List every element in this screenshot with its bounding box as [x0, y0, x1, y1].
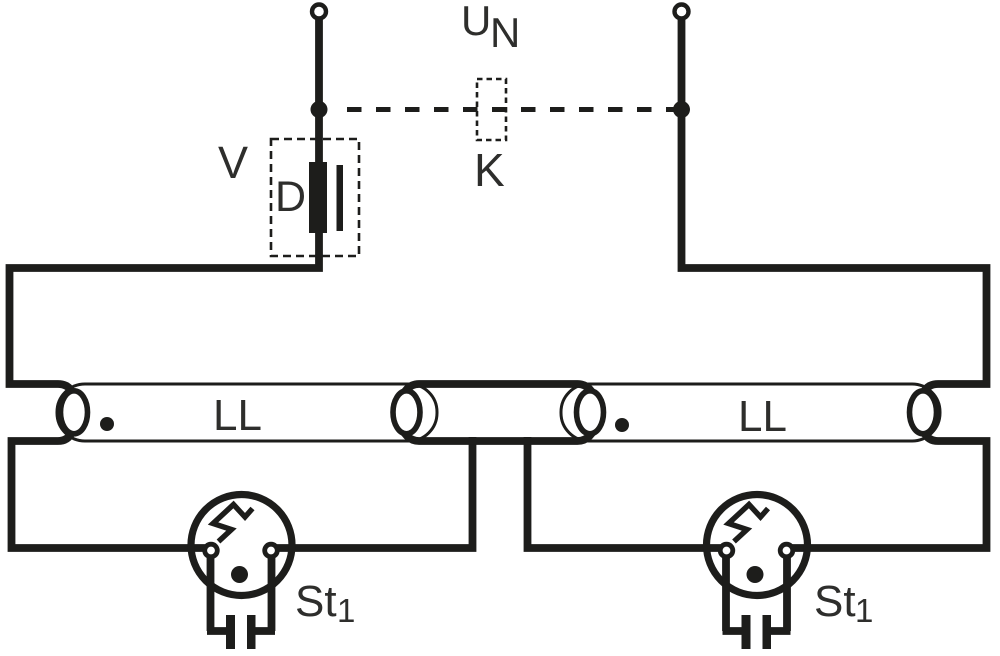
gas dot lamp2: [615, 418, 629, 432]
wire: lamp2 right electrode bottom to starter St1 (right) right pin: [787, 432, 987, 548]
svg-text:1: 1: [337, 592, 355, 629]
terminal left: [312, 5, 326, 19]
wire: right supply from terminal down and over to lamp2 right electrode: [682, 18, 987, 392]
lamp tube LL (right): [561, 384, 940, 441]
starter dot: [231, 566, 248, 583]
pin contact right: [265, 544, 278, 557]
wire: lamp1 left electrode bottom to starter St1 left pin: [12, 432, 212, 548]
starter body circle: [707, 495, 808, 596]
svg-text:V: V: [218, 137, 248, 188]
pin contact right: [780, 544, 793, 557]
base pin wire left: [207, 556, 235, 631]
svg-text:K: K: [474, 144, 505, 196]
pin contact left: [205, 544, 218, 557]
svg-text:D: D: [275, 173, 306, 221]
electrode ellipse lamp2 right: [910, 391, 937, 434]
wire: middle bridge down to starter St1 (right) left pin: [528, 437, 727, 548]
choke D core bar: [337, 165, 344, 231]
starter St1 left: [191, 495, 292, 650]
starter St1 right: [707, 495, 808, 650]
svg-text:St: St: [814, 577, 856, 626]
svg-text:U: U: [461, 0, 491, 44]
svg-text:LL: LL: [738, 392, 787, 441]
capacitor K dashed box: [477, 79, 506, 140]
bridge between the two lamps: [402, 384, 595, 441]
starter body circle: [191, 495, 292, 596]
prong left: [226, 615, 235, 649]
electrode ellipse lamp2 left: [577, 391, 604, 434]
electrode ellipse lamp1 right: [393, 391, 420, 434]
svg-text:St: St: [295, 577, 337, 626]
terminal right: [675, 5, 689, 19]
prong left: [742, 615, 751, 649]
lamp tube LL (left): [57, 384, 437, 441]
svg-text:1: 1: [855, 592, 873, 629]
base pin wire right: [247, 556, 275, 631]
ballast V dashed box: [271, 139, 359, 256]
wire: left supply from terminal through ballast down to lamp1 left electrode: [10, 18, 320, 392]
starter dot: [747, 566, 764, 583]
wire: starter St1 right pin up to middle bridge: [271, 437, 473, 548]
pin contact left: [720, 544, 733, 557]
prong right: [247, 615, 256, 649]
bimetal zigzag: [213, 505, 253, 542]
prong right: [763, 615, 772, 649]
svg-text:LL: LL: [213, 391, 262, 440]
junction node left: [311, 101, 328, 118]
choke D winding bar: [309, 162, 327, 233]
svg-text:N: N: [490, 9, 520, 56]
base pin wire left: [723, 556, 751, 631]
electrode ellipse lamp1 left: [61, 391, 88, 434]
bimetal zigzag: [729, 505, 769, 542]
junction node right: [673, 101, 690, 118]
dashed mains link line: [347, 107, 682, 112]
gas dot lamp1: [100, 417, 114, 431]
base pin wire right: [763, 556, 791, 631]
